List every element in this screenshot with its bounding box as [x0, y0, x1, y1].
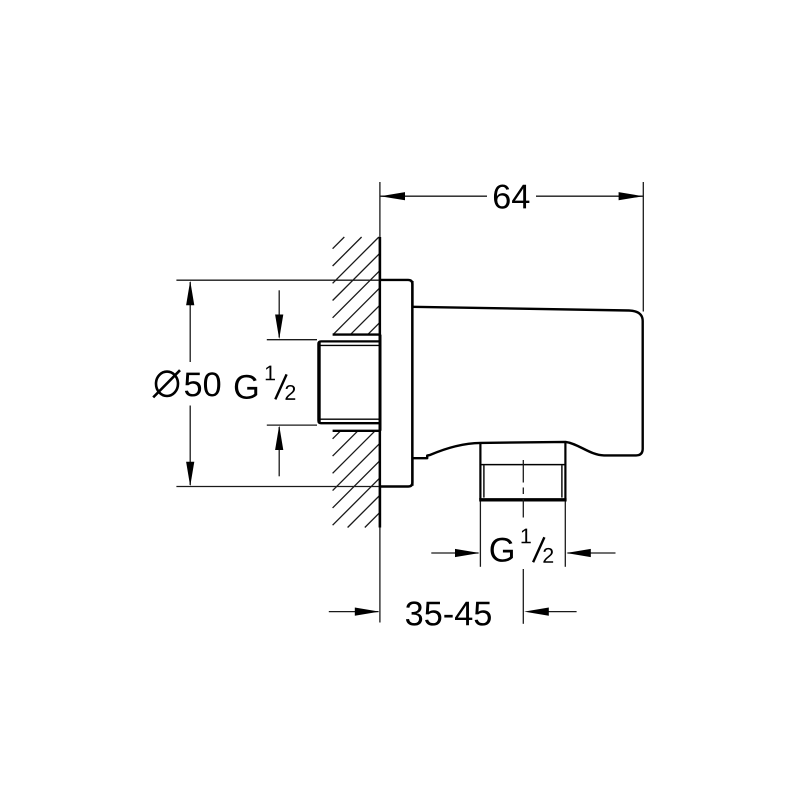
- escutcheon plate: [380, 280, 413, 487]
- body outline: [412, 307, 642, 458]
- wall face line: [379, 182, 381, 623]
- mid G1/2 dim arrow bottom: [278, 427, 280, 476]
- dim 64 line: [380, 195, 487, 197]
- outlet centerline: [522, 460, 524, 624]
- dim 35-45 line right: [549, 611, 577, 613]
- dim D50 text 50: [185, 372, 220, 396]
- outlet thread relief lines: [483, 465, 485, 497]
- dim D50 text diameter symbol: [156, 372, 178, 396]
- outlet thread end thick line: [479, 498, 566, 501]
- dim 35-45 line left: [329, 611, 379, 613]
- outlet collar line: [480, 464, 565, 466]
- dim 64 text: [494, 184, 529, 208]
- wall face thick line (over plate fill): [379, 237, 381, 528]
- outlet G1/2 dim arrows: [431, 552, 478, 554]
- wall hatching upper: [333, 237, 380, 334]
- dim D50 extension lines: [176, 279, 379, 281]
- dim D50 line: [189, 282, 191, 362]
- outlet G1/2 label: [491, 538, 513, 562]
- dim D50 arrow up: [186, 281, 194, 306]
- wall hatching lower: [333, 431, 380, 527]
- dim 35-45 text: [406, 601, 491, 625]
- wall hole top edge: [333, 333, 380, 335]
- dim 64 extension line right: [642, 182, 644, 312]
- mid G1/2 dim arrow top: [278, 290, 280, 337]
- mid G1/2 label: [235, 375, 257, 399]
- outlet G1/2 extension lines: [479, 502, 481, 567]
- dim 64 arrow right: [619, 192, 644, 200]
- dim 64 arrow left: [380, 192, 405, 200]
- wall hole bottom edge: [333, 430, 380, 432]
- wall face line at hole (over connector): [379, 335, 382, 431]
- mid G1/2 extension lines: [267, 339, 317, 341]
- plate right edge (over body fill): [411, 281, 413, 486]
- outlet port G1/2: [479, 443, 481, 500]
- inlet union nut G1/2 behind wall: [318, 341, 380, 423]
- dim D50 arrow down: [186, 462, 194, 487]
